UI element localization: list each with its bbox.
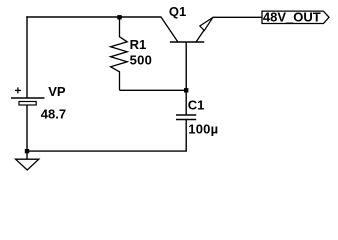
- voltage source VP top plate: [11, 97, 45, 99]
- transistor Q1 emitter lead: [196, 30, 205, 43]
- transistor Q1 base lead: [185, 42, 187, 90]
- net flag 48V_OUT outline: [262, 11, 329, 23]
- svg-text:VP: VP: [48, 84, 66, 99]
- transistor Q1 base bar: [170, 41, 205, 43]
- svg-text:500: 500: [130, 52, 153, 67]
- voltage source VP body: [19, 102, 36, 106]
- wire bottom rail: [27, 150, 187, 152]
- ground stem: [26, 151, 28, 159]
- node junction dot at ground: [25, 149, 29, 153]
- wire R1 bottom to base node: [120, 89, 187, 91]
- svg-text:C1: C1: [188, 98, 205, 113]
- wire VP to ground node: [26, 105, 28, 152]
- node junction dot at base/C1: [184, 88, 188, 92]
- transistor Q1 collector lead: [161, 17, 178, 42]
- svg-text:48.7: 48.7: [41, 106, 66, 121]
- transistor Q1 emitter arrowhead: [200, 18, 213, 31]
- voltage source VP plus sign: [15, 87, 21, 93]
- wire base node to C1: [185, 90, 187, 115]
- wire left rail: [26, 16, 28, 98]
- wire C1 to bottom rail: [185, 120, 187, 152]
- node junction dot at R1 top: [117, 15, 121, 19]
- svg-text:48V_OUT: 48V_OUT: [263, 9, 321, 24]
- wire top rail: [26, 16, 161, 18]
- resistor R1: [111, 17, 128, 90]
- svg-text:100µ: 100µ: [188, 122, 218, 137]
- wire emitter to output flag: [212, 16, 262, 18]
- ground: [16, 159, 39, 170]
- capacitor C1 top plate: [176, 114, 196, 116]
- svg-text:Q1: Q1: [169, 4, 186, 19]
- capacitor C1 bottom plate: [176, 119, 196, 121]
- svg-text:R1: R1: [130, 37, 147, 52]
